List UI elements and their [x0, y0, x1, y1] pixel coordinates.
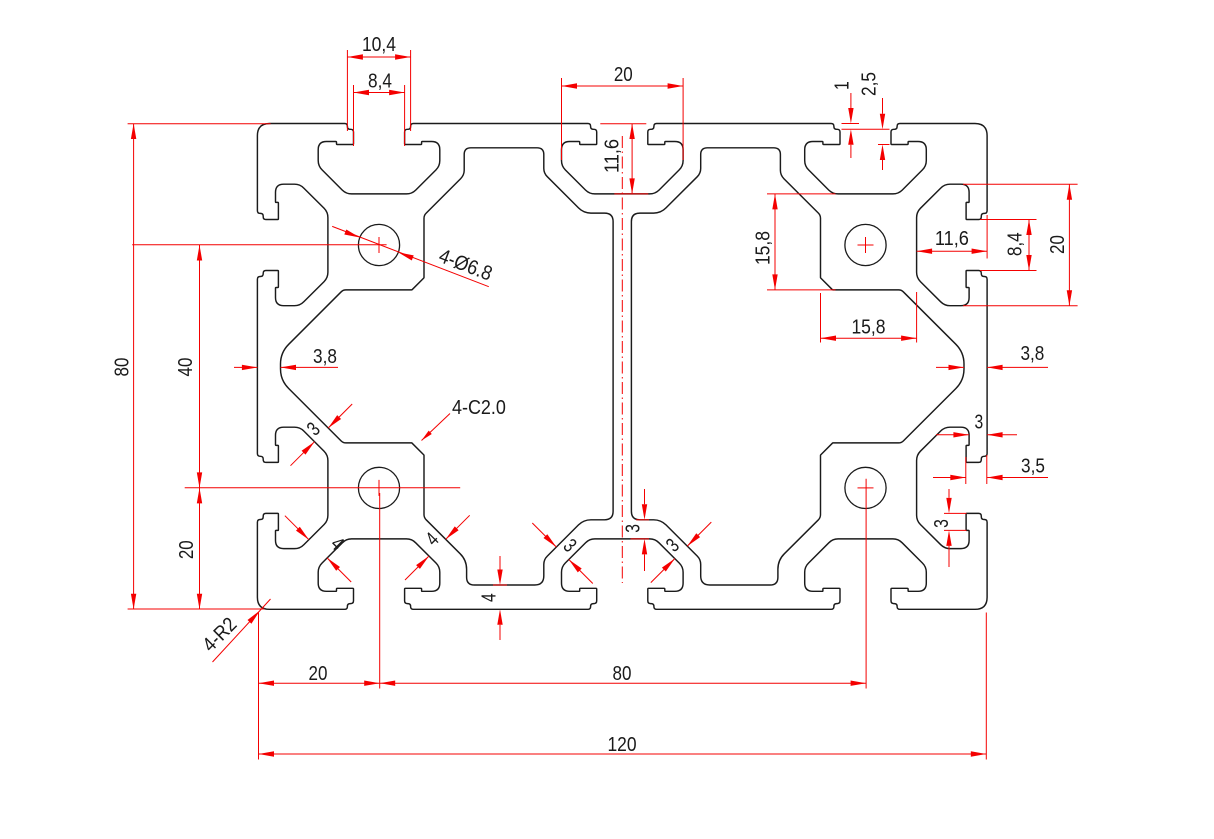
dimension 3 bottom-middle left wall [532, 523, 593, 584]
right inner cavity [631, 148, 964, 585]
dimension 11,6 right slot depth [917, 215, 988, 259]
web centre line [621, 136, 623, 583]
dimension 3 lower-left block bridge wall [291, 404, 353, 466]
svg-text:15,8: 15,8 [753, 231, 775, 265]
mounting hole BL diameter 6.8 [358, 467, 399, 508]
profile outer contour with T-slots [257, 124, 987, 610]
dimension 20 bottom [259, 663, 380, 686]
dimension 80 bottom [380, 663, 866, 686]
dimension 3,8 right wall thickness [936, 343, 1048, 370]
dimension 15,8 block height right [753, 194, 836, 290]
dimension 15,8 block width right [821, 292, 917, 343]
dimension 3 right slot ceiling to edge [936, 412, 1017, 438]
svg-text:80: 80 [613, 663, 632, 685]
svg-text:3: 3 [931, 519, 953, 528]
svg-text:3: 3 [975, 412, 984, 434]
svg-text:3,8: 3,8 [313, 346, 337, 368]
dimension 3,8 left wall thickness [234, 346, 338, 370]
extension line bottom-right edge [985, 613, 987, 760]
dimension 8,4 right slot opening width [980, 220, 1036, 271]
svg-text:3,8: 3,8 [1020, 343, 1044, 365]
dimension 3 right lower slot lip wall [931, 489, 967, 567]
dimension 80 overall height [112, 124, 137, 610]
dimension 8,4 top slot opening width [354, 71, 405, 147]
hole TL centre mark [378, 237, 380, 253]
hole BR centre mark [858, 487, 874, 489]
extension line top-left [128, 123, 271, 125]
dimension 20 right slot cavity width [963, 184, 1078, 306]
label 4-C2.0 chamfers leader [422, 397, 506, 441]
dimension 3 bottom-middle right wall [651, 522, 712, 583]
svg-text:20: 20 [176, 540, 198, 559]
extension line hole x=20 vertical [379, 493, 381, 689]
extension line bottom-left [128, 608, 265, 610]
dimension 40 hole pitch [175, 245, 202, 488]
label 4-dia6.8 holes leader [332, 226, 495, 286]
mounting hole TL diameter 6.8 [358, 224, 399, 265]
dimension 4 bottom shell thickness [479, 556, 507, 640]
dimension 20 top middle cavity width [562, 64, 684, 160]
svg-text:11,6: 11,6 [935, 228, 969, 250]
dimension 4 bottom-left corner diagonal [285, 516, 351, 582]
svg-text:120: 120 [607, 734, 636, 756]
dimension 1 slot lip step depth [831, 81, 859, 158]
hole centre line upper-left [132, 244, 386, 246]
dimension 20 hole to bottom edge [176, 488, 202, 609]
svg-text:1: 1 [831, 81, 853, 90]
extension line bottom-left edge [258, 613, 260, 760]
hole TR centre mark [858, 237, 874, 253]
svg-text:20: 20 [309, 663, 328, 685]
mounting hole BR diameter 6.8 [845, 467, 886, 508]
dimension 10,4 top slot recess width [347, 34, 410, 131]
svg-text:40: 40 [175, 358, 197, 377]
mounting hole TR diameter 6.8 [845, 224, 886, 265]
svg-text:4-C2.0: 4-C2.0 [452, 397, 506, 419]
svg-text:3: 3 [622, 524, 644, 533]
svg-text:8,4: 8,4 [1005, 232, 1027, 256]
svg-text:20: 20 [614, 64, 633, 86]
svg-text:80: 80 [112, 358, 134, 377]
svg-text:2,5: 2,5 [859, 72, 881, 96]
dimension 4 lower-left block bridge [405, 515, 470, 580]
hole BL centre mark [378, 480, 380, 496]
hole centre line lower-left [185, 487, 461, 489]
hole centre line bottom-right vertical [865, 479, 867, 689]
svg-text:11,6: 11,6 [602, 139, 624, 173]
svg-text:20: 20 [1047, 235, 1069, 254]
dimension 3,5 right slot lip to edge [933, 455, 1048, 484]
svg-text:15,8: 15,8 [851, 317, 885, 339]
svg-text:10,4: 10,4 [362, 34, 396, 56]
left inner cavity [281, 148, 614, 585]
dimension 11,6 slot depth top middle [600, 124, 648, 194]
svg-text:4: 4 [479, 593, 501, 602]
dimension 120 overall width [259, 734, 987, 757]
svg-text:8,4: 8,4 [368, 71, 392, 93]
svg-text:3,5: 3,5 [1021, 456, 1045, 478]
dimension 3 bottom shelf wall [622, 489, 649, 571]
dimension 2,5 slot opening depth [842, 72, 890, 170]
label 4-R2 corner radius leader [199, 599, 271, 662]
